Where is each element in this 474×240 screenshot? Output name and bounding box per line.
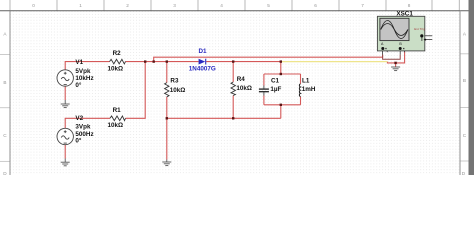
svg-text:R2: R2 — [113, 50, 122, 57]
svg-text:R4: R4 — [237, 76, 246, 83]
svg-text:8: 8 — [408, 3, 411, 8]
svg-text:R1: R1 — [113, 107, 122, 114]
svg-text:10kΩ: 10kΩ — [170, 87, 186, 94]
svg-text:V1: V1 — [75, 59, 83, 66]
svg-text:V2: V2 — [75, 115, 83, 122]
svg-text:6: 6 — [314, 3, 317, 8]
svg-text:3Vpk: 3Vpk — [75, 124, 91, 131]
svg-text:B: B — [463, 78, 466, 83]
svg-text:L1: L1 — [302, 78, 310, 85]
svg-text:0°: 0° — [75, 81, 82, 89]
svg-text:7: 7 — [361, 3, 364, 8]
svg-text:3: 3 — [173, 3, 176, 8]
svg-text:R3: R3 — [170, 78, 179, 85]
svg-text:5Vpk: 5Vpk — [75, 68, 91, 75]
svg-text:1µF: 1µF — [270, 86, 281, 93]
svg-text:0: 0 — [32, 3, 35, 8]
svg-text:10kΩ: 10kΩ — [108, 66, 124, 73]
svg-text:5: 5 — [267, 3, 270, 8]
svg-text:D1: D1 — [199, 48, 208, 55]
svg-text:1N4007G: 1N4007G — [189, 66, 216, 73]
svg-text:1mH: 1mH — [302, 86, 316, 93]
svg-text:B: B — [3, 80, 6, 85]
svg-text:10kHz: 10kHz — [75, 75, 93, 82]
svg-text:Ext Trig: Ext Trig — [414, 27, 425, 31]
svg-text:C1: C1 — [271, 77, 280, 84]
svg-text:XSC1: XSC1 — [396, 10, 413, 17]
svg-text:0°: 0° — [75, 137, 82, 145]
svg-text:10kΩ: 10kΩ — [108, 122, 124, 129]
svg-text:2: 2 — [126, 3, 129, 8]
svg-text:10kΩ: 10kΩ — [236, 85, 252, 92]
svg-text:4: 4 — [220, 3, 223, 8]
svg-text:1: 1 — [79, 3, 82, 8]
